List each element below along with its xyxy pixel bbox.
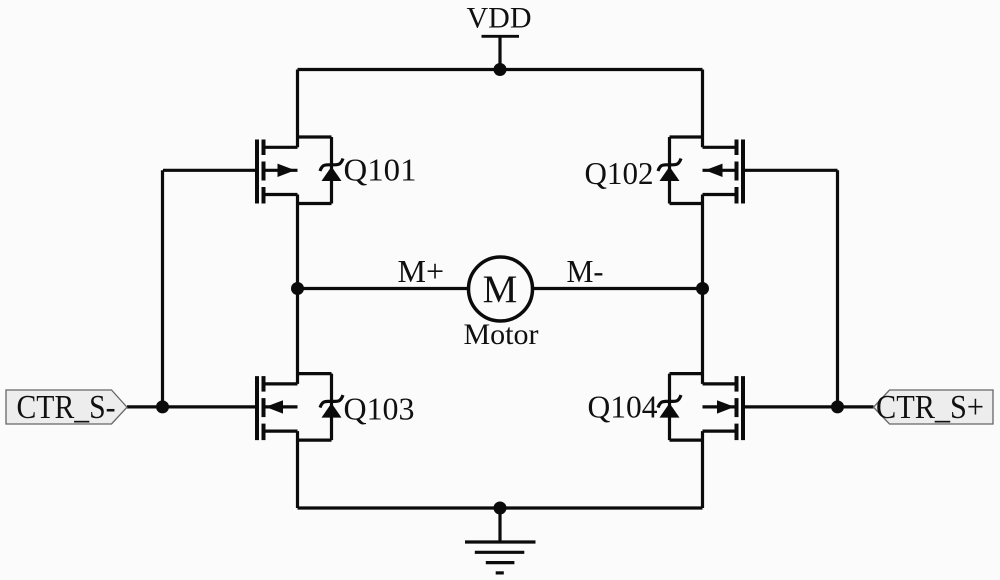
diode D101 body diode of Q101 [298,137,344,204]
svg-text:CTR_S+: CTR_S+ [876,389,984,426]
wire CTR_S- to junction [127,405,163,408]
node CTR_S- junction dot [156,400,169,413]
wire left branch source segment [296,431,299,508]
ground [465,542,536,573]
wire right gate lead vertical [836,170,839,407]
svg-text:Q101: Q101 [344,152,417,188]
wire bottom rail [298,506,703,509]
svg-text:Q103: Q103 [344,391,415,427]
wire middle rail right [531,287,703,290]
svg-text:VDD: VDD [467,2,532,35]
wire VDD stub [498,36,501,69]
node CTR_S+ junction dot [831,400,844,413]
wire left gate lead vertical [161,170,164,407]
port flag CTR_S- [6,390,127,424]
node M+ junction dot [291,282,304,295]
svg-text:Q102: Q102 [585,155,654,191]
svg-text:M: M [483,268,518,311]
wire CTR_S+ to junction [838,405,874,408]
transistor Q102 [703,140,838,204]
wire left branch middle segment [296,195,299,384]
wire right branch source segment [701,431,704,508]
port flag CTR_S+ [874,390,994,424]
svg-text:Motor: Motor [464,318,539,351]
svg-text:M+: M+ [398,253,445,289]
wire left branch drain segment [296,70,299,148]
transistor Q103 [163,376,298,440]
wire middle rail left [298,287,471,290]
power rail VDD bar [482,35,520,38]
diode D103 body diode of Q103 [298,374,344,441]
transistor Q104 [703,376,838,440]
diode D104 body diode of Q104 [658,374,703,441]
node M- junction dot [696,282,709,295]
wire ground stub [498,508,501,542]
diode D102 body diode of Q102 [658,137,703,204]
svg-text:M-: M- [567,253,604,289]
wire right branch middle segment [701,195,704,384]
node VDD junction dot [494,63,507,76]
transistor Q101 [163,140,298,204]
wire top rail [298,68,703,71]
svg-text:Q104: Q104 [588,389,658,425]
wire right branch drain segment [701,70,704,148]
node ground junction dot [494,502,507,515]
motor M [469,257,533,321]
svg-text:CTR_S-: CTR_S- [17,389,116,426]
